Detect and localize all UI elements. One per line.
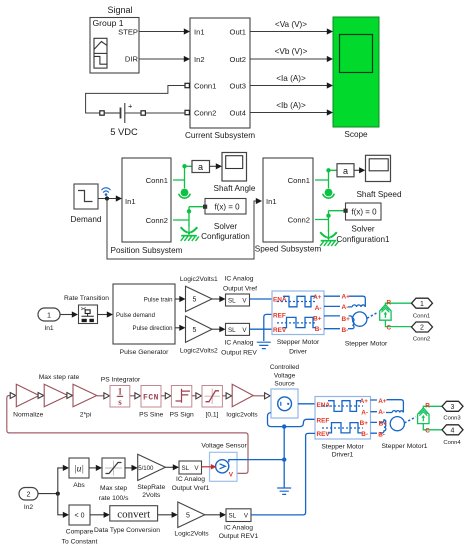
svg-text:PS Sine: PS Sine [139,412,163,419]
junction node [105,196,109,200]
electrical reference (row5) [277,488,291,494]
svg-text:SL: SL [228,327,236,334]
svg-text:Out4: Out4 [230,109,246,118]
svg-text:Voltage Sensor: Voltage Sensor [201,443,247,450]
svg-text:Configuration1: Configuration1 [336,235,390,244]
svg-text:Logic2Volts1: Logic2Volts1 [180,276,218,283]
svg-text:2: 2 [420,325,424,332]
svg-text:5: 5 [193,327,197,334]
svg-text:B+: B+ [342,316,351,323]
wire junction to Compare To Constant [58,494,68,515]
svg-text:+: + [128,102,133,111]
wire Out2 to Scope with label <Vb (V)> [250,58,332,60]
wire DIR to In2 [139,58,189,60]
wire CVS + to ENA (blue) [298,403,315,405]
svg-text:A+: A+ [360,398,369,405]
block a (position) [192,161,210,173]
svg-text:Driver1: Driver1 [332,451,354,458]
svg-text:C: C [425,428,430,435]
block IC Analog Output REV [226,323,250,335]
svg-text:f(x) = 0: f(x) = 0 [351,208,377,217]
svg-text:FCN: FCN [143,394,159,403]
wire Pulse train to Logic2Volts1 [175,298,184,300]
wire Normalize to Max step rate [39,395,43,397]
svg-text:f(x) = 0: f(x) = 0 [214,203,240,212]
svg-text:Compare: Compare [66,529,94,536]
svg-text:<Ib (A)>: <Ib (A)> [276,101,306,110]
wire Out3 to Scope with label <Ia (A)> [250,85,332,87]
gain 2*pi [73,384,97,406]
svg-text:3: 3 [451,404,455,411]
svg-text:Solver: Solver [351,225,374,234]
wire Out1 to Scope with label <Va (V)> [250,31,332,33]
wire convert to Logic2Volts [158,514,176,516]
inport In2 [19,488,38,501]
svg-text:Out1: Out1 [230,28,246,37]
wire driver A- to motor [324,305,352,308]
svg-text:REF: REF [317,417,330,424]
svg-text:B+: B+ [379,421,388,428]
svg-text:IC Analog: IC Analog [225,276,254,283]
rotational interface house (row4) [418,408,429,424]
svg-text:SL: SL [228,297,236,304]
svg-text:[0,1]: [0,1] [205,412,218,419]
wire STEP to In1 [139,31,189,33]
svg-text:Conn4: Conn4 [443,440,461,446]
svg-text:DIR: DIR [125,55,139,64]
block PS Integrator [110,386,130,408]
wire Position Conn2 net [173,207,203,227]
wire battery positive to Conn2 [145,112,185,114]
block Shaft Angle scope [222,153,247,182]
block a (speed) [337,164,354,177]
svg-text:In1: In1 [44,325,54,332]
block Solver Configuration [203,199,246,215]
wire In1 to Rate Transition [60,314,76,316]
svg-text:Speed Subsystem: Speed Subsystem [255,245,322,254]
svg-text:Rate Transition: Rate Transition [64,295,109,302]
block Compare To Constant [69,505,90,525]
svg-text:Conn2: Conn2 [146,216,168,225]
svg-text:logic2volts: logic2volts [226,412,258,419]
wire logic2volts to Controlled Voltage Source [253,395,265,397]
wire house1 C to Conn4 [423,424,444,430]
svg-text:Controlled: Controlled [270,364,300,371]
svg-text:Signal: Signal [107,5,132,15]
svg-text:IC Analog: IC Analog [224,524,253,531]
svg-text:Driver: Driver [289,349,308,356]
svg-text:A-: A- [315,305,322,312]
svg-text:A+: A+ [313,294,322,301]
svg-text:In1: In1 [266,197,277,206]
svg-text:< 0: < 0 [75,513,85,520]
wire Vref1 V to Voltage Sensor (red) [202,466,214,468]
svg-text:5: 5 [193,297,197,304]
svg-text:Demand: Demand [71,215,102,224]
svg-text:4: 4 [451,427,455,434]
svg-text:2*pi: 2*pi [80,412,92,419]
svg-text:A-: A- [378,409,385,416]
junction green [326,214,330,218]
wire junction down to sensor net [283,427,285,460]
wire driver1 B- to motor1 [371,432,382,434]
block Abs [69,458,89,478]
PS terminator ball (speed) [323,189,335,199]
svg-text:5: 5 [186,512,190,519]
block Stepper Motor Driver1 [315,397,371,440]
wire 2*pi to PS Integrator [97,395,109,397]
wireless logging badge [102,188,111,196]
connection port Conn1 [412,298,433,308]
svg-text:R: R [425,403,430,410]
wire In2 to junction [38,493,58,495]
wire Position Conn1 net [173,166,192,188]
svg-text:PS Sign: PS Sign [170,412,194,419]
svg-text:STEP: STEP [118,28,138,37]
electrical reference (row3) [257,342,271,348]
junction green [182,164,186,168]
wire Logic2Volts to IC Analog Output REV1 [205,514,224,516]
svg-text:R: R [387,300,392,307]
junction node [56,492,60,496]
connection port Conn2 [412,322,433,332]
wire Out4 to Scope with label <Ib (A)> [250,112,332,114]
wire house C to Conn2 [385,320,411,326]
svg-text:Conn1: Conn1 [288,176,310,185]
svg-text:REF: REF [273,312,286,319]
block Shaft Speed scope [366,155,391,181]
gain Max step rate [44,384,68,406]
svg-text:In1: In1 [125,197,136,206]
wire ground to REF (blue) [264,314,272,341]
svg-text:Output REV1: Output REV1 [219,533,259,540]
PS terminator ball [179,189,191,199]
svg-text:Source: Source [274,381,295,388]
stepper motor1 symbol [381,411,416,433]
svg-text:Pulse Generator: Pulse Generator [120,349,169,356]
gain Normalize [16,384,39,406]
svg-text:Out3: Out3 [230,82,246,91]
svg-text:Logic2Volts2: Logic2Volts2 [180,348,218,355]
svg-text:A+: A+ [378,398,387,405]
svg-text:A+: A+ [342,293,351,300]
junction blue (REF net) [282,424,286,428]
wire driver A+ to motor [324,296,365,307]
wire house1 R to Conn3 [423,406,444,409]
svg-text:<Va (V)>: <Va (V)> [275,20,307,29]
battery 5 VDC [100,102,146,124]
feedback wire from Voltage Sensor V to Normalize (PS) [7,396,248,474]
block Current Subsystem [185,18,250,128]
block PS Sine [141,386,161,408]
wire PS Sign to [0,1] [192,395,201,397]
block Position Subsystem [122,158,171,242]
svg-text:Conn2: Conn2 [413,337,430,343]
svg-text:Voltage: Voltage [274,372,296,379]
svg-text:V: V [229,472,234,479]
wire PS Sine to PS Sign [161,395,170,397]
svg-text:Logic2Volts: Logic2Volts [174,531,209,538]
svg-text:Normalize: Normalize [13,412,43,419]
block IC Analog Output Vref1 [179,461,202,474]
svg-text:In2: In2 [24,504,34,511]
wire CVS - down to REF net (blue) [268,413,316,427]
svg-text:5 VDC: 5 VDC [110,126,138,137]
junction green [187,209,191,213]
gain Logic2Volts2 [186,316,213,342]
svg-text:2Volts: 2Volts [142,492,161,499]
wire driver B- to motor [324,328,350,330]
connection port Conn3 [442,401,463,411]
svg-text:Output REV: Output REV [221,350,257,357]
wire driver B+ to motor [324,315,350,317]
gain StepRate 2Volts [138,454,166,480]
svg-text:Max step rate: Max step rate [39,374,80,381]
block Scope [333,17,379,127]
wire Rate Transition to Pulse Generator [97,314,111,316]
svg-text:Configuration: Configuration [201,232,250,241]
wire Demand to Speed In1 (routed below) [107,199,261,260]
inport In1 [38,308,60,321]
svg-text:<Ia (A)>: <Ia (A)> [276,74,306,83]
svg-text:A-: A- [342,304,349,311]
svg-text:Conn2: Conn2 [288,216,310,225]
block Voltage Sensor [210,452,238,481]
wire driver1 A+ to motor1 [371,400,404,413]
svg-text:<Vb (V)>: <Vb (V)> [275,47,308,56]
svg-text:1: 1 [118,387,123,397]
block Speed Subsystem [263,158,313,242]
svg-text:Data Type Conversion: Data Type Conversion [94,527,160,534]
block Demand [74,184,98,209]
wire REV to driver REV (blue) [250,328,273,330]
svg-text:PS Integrator: PS Integrator [101,377,141,384]
wire StepRate to IC Analog Output Vref1 [165,466,177,468]
block PS Sign [171,386,191,408]
svg-text:Stepper Motor: Stepper Motor [345,341,388,348]
svg-text:In1: In1 [194,28,205,37]
junction green [326,168,330,172]
svg-text:IC Analog: IC Analog [176,476,205,483]
rotational interface house (row3) [380,305,391,321]
wire junction to Abs [58,468,68,494]
svg-text:Scope: Scope [344,130,368,139]
wire PS Integrator to PS Sine [130,395,140,397]
block IC Analog Output Vref [226,294,250,306]
junction blue (sensor net) [282,457,286,461]
svg-text:Out2: Out2 [230,55,246,64]
svg-text:B-: B- [342,327,349,334]
svg-text:a: a [198,162,203,172]
svg-text:5/100: 5/100 [138,465,154,472]
wire driver1 A- to motor1 [371,411,393,414]
wire Logic2Volts1 to IC Analog Output Vref [212,298,224,300]
svg-text:Pulse train: Pulse train [144,296,173,303]
svg-text:Conn1: Conn1 [413,314,430,320]
svg-text:rate 100/s: rate 100/s [99,495,129,502]
svg-text:Abs: Abs [73,482,85,489]
wire Max step rate to 2*pi [68,395,72,397]
block Signal (signal builder Group 1) [90,18,139,74]
block Stepper Motor Driver [272,291,324,335]
svg-text:Shaft Angle: Shaft Angle [214,184,256,193]
wire Demand to Position In1 [98,198,121,200]
svg-text:Conn3: Conn3 [443,415,461,421]
block Solver Configuration1 [344,203,382,220]
svg-text:B+: B+ [360,420,369,427]
svg-text:2: 2 [27,490,31,499]
wire battery negative to Conn1 [86,86,185,114]
svg-text:ENA: ENA [273,297,287,304]
svg-text:Pulse direction: Pulse direction [133,325,173,332]
wire Compare to Data Type Conversion [90,514,108,516]
wire driver1 B+ to motor1 [371,421,382,423]
svg-text:Position Subsystem: Position Subsystem [111,246,183,255]
svg-text:convert: convert [117,509,150,521]
wire a to Shaft Angle [210,165,221,167]
wire [0,1] to logic2volts [222,395,231,397]
wire Logic2Volts2 to IC Analog Output REV [212,328,224,330]
svg-text:SL: SL [229,513,237,520]
svg-text:|u|: |u| [74,465,84,475]
wire junction to electrical reference [283,460,285,488]
gain logic2volts [232,384,253,406]
connection port Conn4 [442,425,463,435]
stepper motor symbol [350,305,378,329]
block Rate Transition [79,305,98,324]
svg-text:Max step: Max step [100,485,127,492]
block [0,1] saturation [202,386,222,408]
svg-text:Group 1: Group 1 [93,18,124,28]
svg-text:Shaft Speed: Shaft Speed [356,190,402,199]
svg-text:Stepper Motor: Stepper Motor [321,444,364,451]
svg-text:Output Vref1: Output Vref1 [172,485,210,492]
svg-text:In2: In2 [194,55,205,64]
block Controlled Voltage Source [271,389,298,418]
wire sensor + to ground net (blue) [237,459,284,461]
svg-text:a: a [343,166,348,176]
svg-text:Stepper Motor1: Stepper Motor1 [381,443,427,450]
wire Max step rate to StepRate2Volts [125,467,136,469]
svg-text:1: 1 [420,301,424,308]
svg-text:Conn1: Conn1 [194,82,216,91]
svg-text:To Constant: To Constant [62,539,98,546]
gain Logic2Volts1 [186,286,213,311]
wire Speed Conn2 net [315,211,344,232]
svg-text:Conn2: Conn2 [194,109,216,118]
svg-text:1: 1 [47,310,51,319]
svg-text:IC Analog: IC Analog [225,340,254,347]
svg-text:Solver: Solver [214,222,237,231]
mechanical reference ground (position) [181,225,199,241]
wire Vref to ENA (blue) [250,298,273,300]
wire Pulse direction to Logic2Volts2 [175,327,184,329]
svg-text:B-: B- [361,431,368,438]
svg-text:Pulse demand: Pulse demand [116,312,155,319]
mechanical reference ground (speed) [320,230,338,246]
svg-text:Stepper Motor: Stepper Motor [277,339,320,346]
svg-text:A-: A- [361,410,368,417]
block Data Type Conversion [110,506,158,521]
svg-text:Current Subsystem: Current Subsystem [185,131,255,140]
wire house R to Conn1 [385,303,411,306]
svg-text:s: s [118,397,122,407]
svg-text:C: C [387,325,392,332]
svg-text:B-: B- [378,431,385,438]
block Max step rate 100/s (saturation) [102,458,125,478]
svg-text:StepRate: StepRate [137,484,165,491]
svg-text:SL: SL [182,465,190,472]
svg-text:B+: B+ [313,316,322,323]
wire REV1 V to driver1 REV (blue) [251,433,315,515]
block Pulse Generator [113,284,175,344]
wire Abs to Max step rate [89,467,101,469]
svg-text:Conn1: Conn1 [146,176,168,185]
wire a to Shaft Speed [354,169,364,171]
svg-text:Output Vref: Output Vref [223,286,257,293]
block IC Analog Output REV1 [226,509,251,522]
wire Speed Conn1 net [315,170,337,188]
gain Logic2Volts [178,502,205,528]
